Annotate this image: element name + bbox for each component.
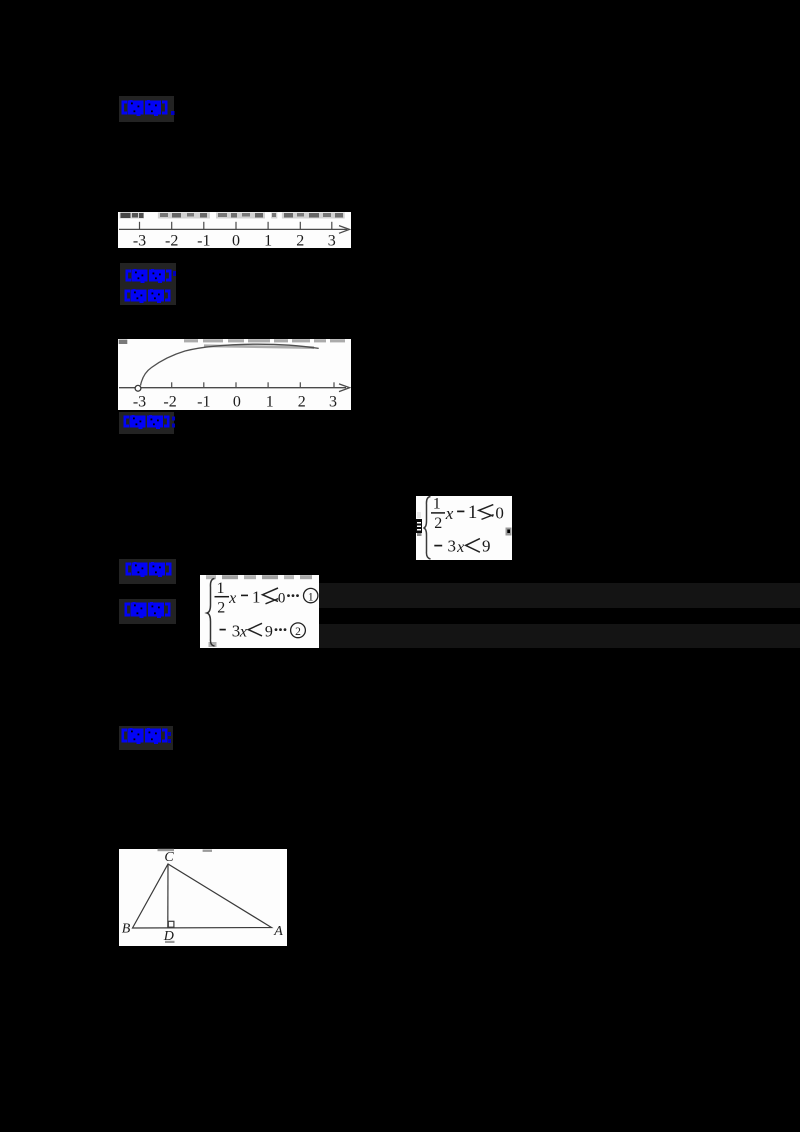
label L1 box bbox=[119, 96, 174, 122]
svg-text:-2: -2 bbox=[165, 233, 178, 250]
label L6 box bbox=[119, 599, 176, 624]
label L6 blue blob 解答 bbox=[124, 602, 176, 619]
label L5 blue blob 分析 bbox=[125, 562, 177, 578]
svg-text:2: 2 bbox=[298, 394, 306, 411]
svg-text:1: 1 bbox=[308, 591, 314, 603]
svg-text:1: 1 bbox=[217, 580, 225, 597]
svg-text:2: 2 bbox=[217, 600, 225, 617]
svg-text:-3: -3 bbox=[133, 233, 146, 250]
svg-text:1: 1 bbox=[264, 233, 272, 250]
svg-text:x: x bbox=[445, 504, 454, 523]
svg-text:0: 0 bbox=[495, 504, 504, 523]
svg-text:-1: -1 bbox=[197, 233, 210, 250]
svg-text:9: 9 bbox=[265, 624, 273, 641]
label L2 blue blob 分析 bbox=[125, 269, 177, 284]
svg-text:9: 9 bbox=[482, 537, 491, 556]
svg-text:1: 1 bbox=[468, 502, 478, 523]
svg-text:0: 0 bbox=[232, 233, 240, 250]
svg-text:C: C bbox=[164, 850, 174, 865]
svg-text:2: 2 bbox=[296, 233, 304, 250]
label L5 box bbox=[119, 559, 176, 584]
number line figure 1 bbox=[118, 211, 351, 249]
svg-text:0: 0 bbox=[278, 591, 286, 607]
label L2/L3 box bbox=[120, 263, 176, 305]
svg-text:0: 0 bbox=[233, 394, 241, 411]
svg-text:2: 2 bbox=[295, 626, 301, 638]
svg-text:x: x bbox=[228, 590, 236, 607]
svg-text:-2: -2 bbox=[163, 394, 176, 411]
label L4 box bbox=[119, 412, 174, 434]
triangle figure bbox=[119, 848, 287, 946]
label L3 blue blob 解答 bbox=[124, 289, 176, 304]
svg-text:-1: -1 bbox=[197, 394, 210, 411]
formula image 2 bbox=[200, 574, 320, 648]
band line 2 (faint dark selection band) bbox=[319, 624, 800, 648]
svg-text:-3: -3 bbox=[133, 394, 146, 411]
svg-text:1: 1 bbox=[266, 394, 274, 411]
svg-text:A: A bbox=[273, 924, 283, 939]
label L4 blue blob 点评 bbox=[123, 415, 177, 430]
label L1 blue blob 考点 bbox=[121, 100, 177, 118]
curve figure 2 bbox=[118, 338, 351, 410]
svg-text:3: 3 bbox=[447, 536, 456, 555]
svg-text:B: B bbox=[122, 922, 131, 937]
svg-text:x: x bbox=[239, 624, 247, 641]
label L7 box bbox=[119, 726, 173, 750]
formula image 1 bbox=[414, 495, 514, 561]
svg-text:3: 3 bbox=[328, 233, 336, 250]
svg-text:x: x bbox=[456, 539, 464, 556]
band line 1 (faint dark selection band) bbox=[319, 583, 800, 608]
svg-text:3: 3 bbox=[329, 394, 337, 411]
svg-text:2: 2 bbox=[434, 515, 442, 532]
svg-text:1: 1 bbox=[433, 496, 441, 513]
svg-text:1: 1 bbox=[252, 588, 261, 607]
label L7 blue blob 点评 bbox=[121, 728, 173, 745]
